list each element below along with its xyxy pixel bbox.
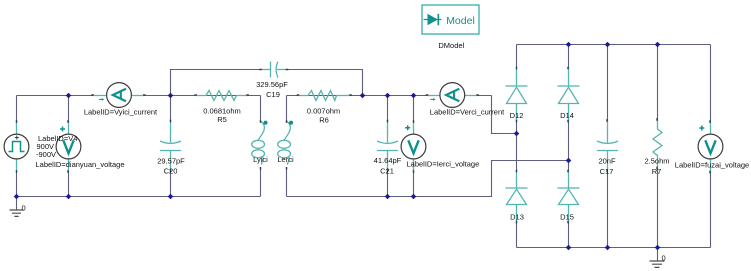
- junction node C17 top: [605, 42, 611, 48]
- voltmeter dianyuan leads: [68, 122, 70, 172]
- svg-text:20nF: 20nF: [598, 157, 616, 166]
- resistor R7: [653, 120, 662, 169]
- diode D15: [558, 188, 580, 205]
- wire D14 top lead: [568, 45, 570, 69]
- diode D13: [506, 188, 528, 205]
- ammeter Vyici arrow: [99, 98, 102, 100]
- wire R7 leg upper: [657, 45, 659, 120]
- wire bridge bottom bus: [517, 247, 711, 249]
- svg-text:D15: D15: [560, 213, 574, 222]
- diode D12 lead: [516, 68, 518, 121]
- wire bottom bus secondary: [287, 161, 569, 197]
- wire bridge top bus: [517, 44, 711, 46]
- capacitor C20 leads: [170, 121, 172, 171]
- diode D13 lead: [516, 171, 518, 222]
- wire C17 leg upper: [607, 45, 609, 121]
- ammeter Verci A glyph: [446, 89, 459, 102]
- wire top row secondary: [287, 95, 492, 97]
- capacitor C19 plates: [271, 62, 278, 78]
- voltmeter fuzai plus: [699, 126, 704, 131]
- resistor R6: [298, 91, 351, 101]
- svg-text:D12: D12: [510, 111, 524, 120]
- voltmeter fuzai leads: [710, 122, 712, 172]
- junction node R7 top: [655, 42, 661, 48]
- junction node C19 right: [360, 93, 366, 99]
- wire V2 meter leg: [413, 96, 415, 197]
- voltmeter Ierci leads: [413, 122, 415, 172]
- ammeter Verci arrow: [430, 98, 433, 100]
- svg-text:LabelID=Verci_current: LabelID=Verci_current: [430, 108, 505, 117]
- wire bridge right leg: [568, 121, 570, 248]
- voltage source V4 pulse glyph: [9, 142, 25, 152]
- inductor Lerci: [278, 122, 291, 165]
- svg-text:C19: C19: [266, 90, 280, 99]
- capacitor C17 plates: [597, 141, 618, 151]
- capacitor C20 plates: [160, 141, 181, 151]
- svg-text:Lyici: Lyici: [253, 155, 268, 164]
- junction node D15 bottom: [566, 245, 572, 251]
- junction node C17 bottom: [605, 245, 611, 251]
- svg-text:0: 0: [22, 204, 26, 213]
- wire C17 leg lower: [607, 171, 609, 248]
- svg-text:0.007ohm: 0.007ohm: [307, 107, 340, 116]
- junction node dianyuan top: [66, 93, 72, 99]
- inductor Lerci phase dot: [289, 121, 293, 125]
- voltmeter fuzai V glyph: [705, 140, 715, 153]
- svg-text:-900V: -900V: [36, 150, 56, 159]
- voltmeter dianyuan circle: [56, 134, 81, 159]
- wire top row primary: [17, 95, 261, 97]
- ammeter Verci leads: [427, 95, 478, 97]
- junction node C21 top: [385, 93, 391, 99]
- junction node C20 bottom: [168, 194, 174, 200]
- voltmeter dianyuan V glyph: [63, 140, 73, 153]
- capacitor C21 plates: [377, 141, 398, 151]
- junction node bridge left mid: [514, 131, 520, 137]
- ammeter Vyici A glyph: [113, 89, 126, 102]
- svg-text:R5: R5: [217, 115, 227, 124]
- diode D12: [506, 86, 528, 104]
- svg-text:D14: D14: [560, 111, 574, 120]
- voltage source V4 circle: [4, 134, 29, 159]
- inductor Lyici: [252, 122, 265, 165]
- junction node Ierci top: [411, 93, 417, 99]
- junction node dianyuan bottom: [66, 194, 72, 200]
- svg-text:D13: D13: [510, 213, 524, 222]
- wire R7 leg lower: [657, 168, 659, 248]
- voltage source V4 plus mark: [15, 136, 19, 140]
- ammeter Vyici leads: [93, 95, 145, 97]
- junction node bridge right mid: [566, 158, 572, 164]
- svg-text:LabelID=Vyici_current: LabelID=Vyici_current: [84, 108, 158, 117]
- capacitor C21 leads: [387, 121, 389, 171]
- wire ground stub right: [657, 248, 659, 261]
- wire D12 top lead: [516, 45, 518, 69]
- svg-text:29.57pF: 29.57pF: [157, 157, 185, 166]
- wire C21 leg: [387, 96, 389, 197]
- capacitor C19 leads: [261, 69, 288, 71]
- svg-text:LabelID=Ierci_voltage: LabelID=Ierci_voltage: [407, 160, 480, 169]
- junction node ground left: [14, 194, 20, 200]
- svg-text:C17: C17: [600, 167, 614, 176]
- voltmeter fuzai circle: [698, 134, 723, 159]
- diode D15 lead: [568, 171, 570, 222]
- voltmeter dianyuan plus: [60, 127, 65, 132]
- junction node R7 ground: [655, 245, 661, 251]
- svg-text:DModel: DModel: [438, 41, 464, 50]
- capacitor C17 leads: [607, 121, 609, 171]
- wire V1 meter leg: [68, 96, 70, 197]
- wire V3 meter leg: [710, 45, 712, 248]
- svg-text:0: 0: [662, 254, 666, 263]
- junction node C21 bottom: [385, 194, 391, 200]
- wire bottom bus primary: [17, 196, 261, 198]
- wire bridge left leg: [516, 121, 518, 248]
- svg-text:Lerci: Lerci: [277, 155, 294, 164]
- ammeter Verci circle: [440, 83, 465, 108]
- voltmeter Ierci plus: [405, 125, 410, 130]
- junction node Ierci bottom: [411, 194, 417, 200]
- junction node C20 top: [168, 93, 174, 99]
- model box DModel: [422, 5, 479, 34]
- svg-text:LabelID=dianyuan_voltage: LabelID=dianyuan_voltage: [36, 160, 125, 169]
- resistor R5: [196, 91, 248, 101]
- voltmeter Ierci circle: [401, 134, 426, 159]
- svg-text:LabelID=fuzai_voltage: LabelID=fuzai_voltage: [675, 161, 749, 170]
- svg-text:41.64pF: 41.64pF: [374, 156, 402, 165]
- svg-text:Model: Model: [446, 15, 475, 27]
- svg-text:C20: C20: [164, 166, 178, 175]
- wire Lerci leg: [286, 96, 288, 197]
- wire Lyici leg: [260, 96, 262, 197]
- wire C19 bypass: [171, 70, 363, 96]
- svg-text:329.56pF: 329.56pF: [256, 80, 288, 89]
- pin ticks: [16, 67, 711, 224]
- diode D14 lead: [568, 68, 570, 121]
- junction node D14 top: [566, 42, 572, 48]
- svg-text:R7: R7: [652, 167, 662, 176]
- svg-text:R6: R6: [319, 116, 329, 125]
- svg-text:2.5ohm: 2.5ohm: [644, 157, 669, 166]
- wire ground stub left: [16, 197, 18, 210]
- wire ammeter2 to bridge left mid: [492, 96, 517, 134]
- wire source leg: [16, 96, 18, 197]
- wire C20 leg: [170, 96, 172, 197]
- voltage source V4 pulse leads: [16, 122, 18, 172]
- ammeter Vyici circle: [107, 83, 132, 108]
- ground left: [10, 210, 24, 216]
- diode D14: [558, 86, 580, 104]
- inductor Lyici phase dot: [263, 121, 267, 125]
- voltmeter Ierci V glyph: [408, 140, 418, 153]
- svg-text:C21: C21: [380, 167, 394, 176]
- ground right: [650, 261, 665, 267]
